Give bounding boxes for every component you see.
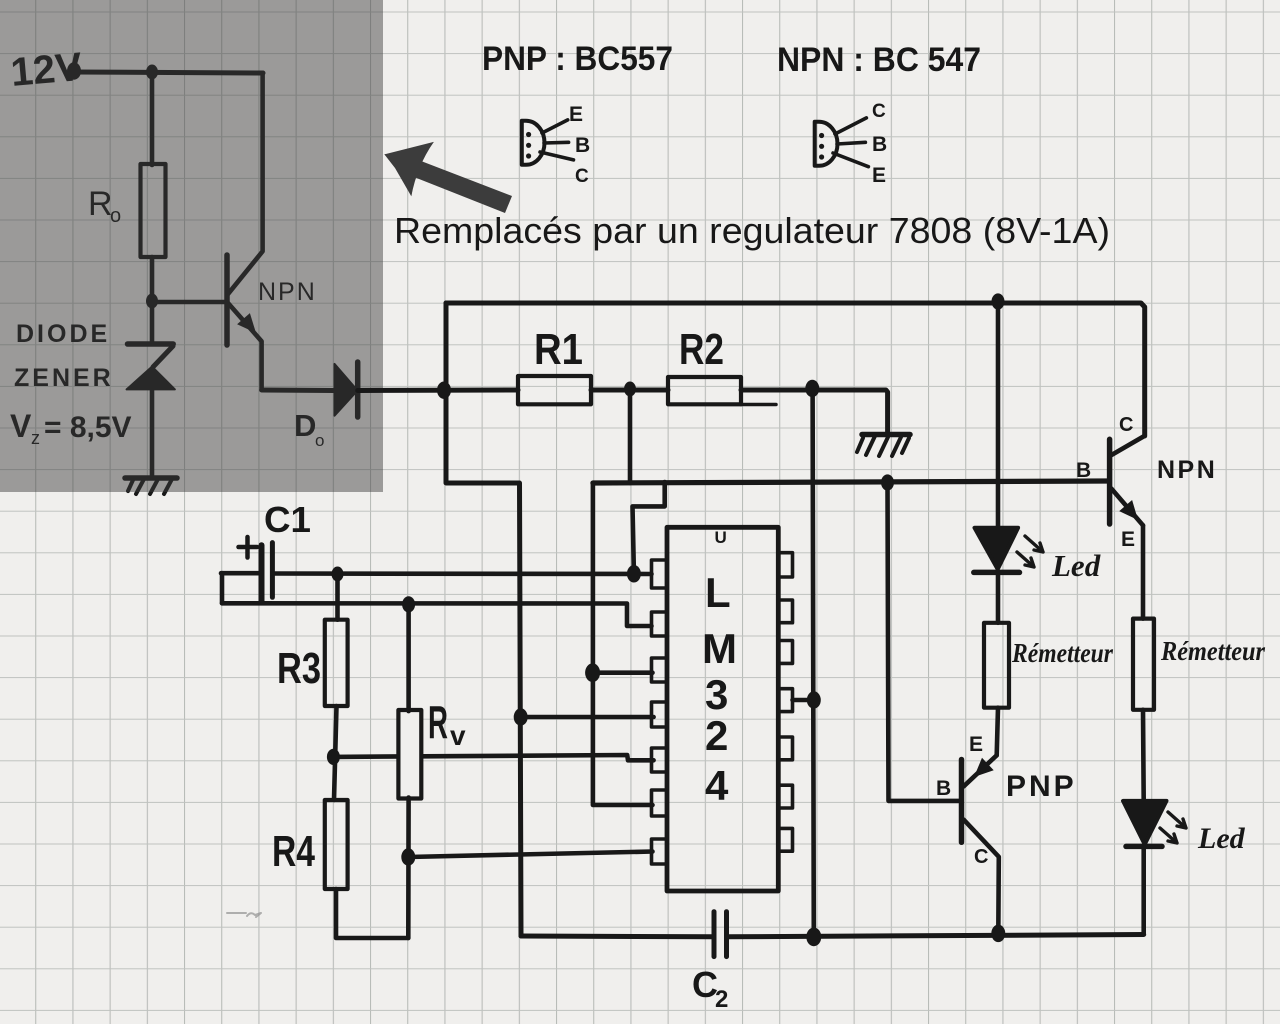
wire bus3 to pin2 bbox=[222, 603, 652, 626]
wire 12V to R0 bbox=[150, 72, 155, 165]
LM324 right pin 6 bbox=[778, 785, 792, 808]
wire Rv top lead bbox=[406, 604, 411, 711]
capacitor C1 plus sign bbox=[239, 545, 258, 550]
PNP pinout package bbox=[522, 121, 545, 165]
wire LED1 anode from top bus bbox=[996, 302, 1001, 529]
junction Q2 collector / bottom bus bbox=[991, 925, 1005, 943]
junction pin1 rail / staircase bbox=[627, 565, 641, 583]
PNP pinout leads bbox=[542, 120, 568, 133]
svg-text:C: C bbox=[974, 846, 988, 868]
junction R3/R4 divider node bbox=[327, 749, 340, 765]
svg-text:C: C bbox=[575, 166, 589, 187]
svg-text:v: v bbox=[450, 720, 466, 751]
LM324 left pin 4 bbox=[652, 702, 668, 727]
op-amp IC U1 LM324 body bbox=[667, 527, 778, 891]
wire into C1 bbox=[221, 571, 262, 576]
wire R4 bottom to Rv bottom bbox=[336, 889, 408, 938]
transistor Q3 NPN bar bbox=[1107, 439, 1113, 524]
wire zener top bbox=[150, 301, 155, 344]
LED D2 bbox=[1123, 801, 1167, 845]
wire Rv bottom lead bbox=[406, 798, 411, 939]
svg-text:R2: R2 bbox=[679, 325, 724, 374]
resistor R3 bbox=[325, 620, 348, 706]
junction top bus / LED1 chain bbox=[992, 293, 1005, 309]
LM324 right pin 3 bbox=[778, 641, 792, 664]
ground (zener) bbox=[125, 475, 177, 481]
wire base Q1 bbox=[152, 300, 226, 305]
resistor R6 (Remetteur) bbox=[1133, 619, 1154, 710]
junction bottom bus / LM324 right vertical bbox=[806, 928, 821, 947]
wire R3 to R4 bbox=[334, 706, 337, 800]
junction pin3 tap bbox=[585, 663, 600, 682]
diode D0 bbox=[335, 364, 358, 416]
svg-text:2: 2 bbox=[705, 712, 728, 759]
svg-text:U: U bbox=[715, 528, 727, 547]
svg-text:E: E bbox=[1121, 528, 1135, 551]
wire R3 top lead bbox=[335, 574, 340, 620]
wire LED2 to bottom bus bbox=[1141, 846, 1146, 934]
svg-text:C: C bbox=[872, 101, 886, 122]
transistor Q2 PNP bar bbox=[959, 760, 965, 843]
wire Q3 emitter to R6 bbox=[1141, 525, 1146, 618]
LM324 right pin 7 bbox=[778, 828, 792, 851]
wire LM324 right vertical (R2 node to bottom bus) bbox=[813, 389, 814, 937]
resistor R0 bbox=[141, 164, 166, 257]
wire R2 to ground stem bbox=[741, 390, 888, 433]
wire R6 to LED2 bbox=[1141, 710, 1146, 801]
LED D1 emission arrows bbox=[1017, 536, 1043, 567]
wire LED1 to R5 bbox=[996, 572, 1001, 622]
svg-text:R3: R3 bbox=[277, 644, 321, 693]
transistor Q1 collector bbox=[228, 73, 263, 294]
resistor R5 (Remetteur) bbox=[984, 623, 1009, 708]
junction D0 wire / left vertical bbox=[437, 381, 451, 399]
junction R3 top bbox=[332, 567, 344, 582]
wire R1 to R2 bbox=[591, 388, 668, 393]
svg-text:R: R bbox=[428, 696, 448, 748]
annotation arrow bbox=[384, 142, 512, 213]
svg-text:C1: C1 bbox=[264, 499, 311, 540]
gray overlay rectangle bbox=[0, 0, 383, 492]
svg-text:PNP : BC557: PNP : BC557 bbox=[482, 40, 673, 78]
wire R5 to PNP emitter bbox=[997, 708, 998, 756]
wire top bus V+ bbox=[446, 303, 1145, 436]
wire bus2 (base rail) bbox=[593, 481, 1109, 483]
transistor Q1 NPN bar bbox=[224, 255, 230, 345]
transistor Q2 PNP emitter with arrow bbox=[964, 755, 997, 786]
svg-text:Rémetteur: Rémetteur bbox=[1011, 638, 1113, 668]
wire bus2 left end down to pin6 bbox=[593, 483, 653, 805]
wire zener to ground bbox=[150, 389, 155, 477]
junction Rv top bbox=[402, 596, 415, 612]
resistor R1 bbox=[518, 376, 591, 404]
wire left vertical from top bus down and jog bbox=[446, 303, 521, 936]
junction pin4 tap on left vertical bbox=[514, 708, 528, 726]
resistor R4 bbox=[325, 800, 348, 889]
wire right pin4 to vertical bbox=[793, 698, 814, 703]
svg-text:C: C bbox=[1119, 414, 1133, 436]
svg-text:E: E bbox=[969, 733, 983, 756]
svg-text:Led: Led bbox=[1197, 822, 1246, 855]
LM324 left pin 6 bbox=[652, 790, 668, 816]
wire C1 to pin1 (bus y=574) bbox=[272, 571, 651, 576]
capacitor C2 bbox=[712, 912, 717, 957]
R2 bottom stray stroke bbox=[741, 403, 776, 407]
svg-text:PNP: PNP bbox=[1006, 770, 1077, 803]
wire C1 left corner down bbox=[220, 573, 225, 603]
svg-text:Led: Led bbox=[1051, 548, 1101, 583]
node A junction dot (R0/zener/base) bbox=[146, 294, 158, 309]
svg-text:M: M bbox=[702, 625, 737, 672]
svg-text:2: 2 bbox=[715, 986, 728, 1013]
wire Q2 base bbox=[889, 799, 962, 804]
transistor Q2 collector bbox=[964, 820, 999, 934]
LM324 left pin 5 bbox=[652, 748, 668, 772]
junction R2 wire / LM324 right vertical bbox=[805, 380, 819, 398]
ground (main) bbox=[862, 432, 910, 438]
svg-text:R1: R1 bbox=[534, 325, 583, 374]
wire Q1 emitter to D0 bbox=[262, 388, 334, 394]
wire pin3 tap to pin 3 bbox=[593, 670, 653, 675]
svg-text:NPN: NPN bbox=[1157, 456, 1217, 484]
svg-text:L: L bbox=[705, 569, 731, 616]
wire R1-R2 node down to bus2 bbox=[628, 389, 633, 483]
svg-text:E: E bbox=[569, 103, 583, 126]
capacitor C1 bbox=[259, 545, 265, 600]
svg-text:B: B bbox=[575, 134, 590, 157]
wire pin7 bbox=[408, 852, 652, 858]
svg-text:4: 4 bbox=[705, 762, 729, 809]
junction bus2 / PNP base feed bbox=[881, 474, 894, 490]
junction R1-R2 node bbox=[624, 382, 636, 397]
NPN pinout leads bbox=[835, 118, 866, 134]
svg-text:NPN : BC 547: NPN : BC 547 bbox=[777, 41, 981, 79]
junction 12V/R0 bbox=[146, 65, 158, 80]
wire R0 to node A bbox=[150, 257, 155, 301]
transistor Q1 emitter with arrow bbox=[228, 303, 262, 389]
NPN pinout package bbox=[815, 122, 838, 166]
LM324 left pin 3 bbox=[652, 658, 668, 682]
LM324 left pin 1 bbox=[652, 560, 668, 588]
transistor Q3 collector bbox=[1111, 436, 1144, 455]
svg-text:B: B bbox=[936, 777, 951, 800]
svg-text:E: E bbox=[872, 164, 886, 187]
wire 12V rail top bbox=[74, 72, 263, 73]
wire bottom bus right segment bbox=[727, 935, 1144, 937]
LED D1 bbox=[975, 528, 1019, 570]
potentiometer Rv bbox=[398, 710, 421, 799]
svg-text:Rémetteur: Rémetteur bbox=[1160, 636, 1265, 666]
resistor R2 bbox=[668, 377, 741, 404]
LM324 right pin 5 bbox=[778, 737, 792, 760]
junction right pin4 bbox=[807, 691, 821, 709]
LM324 left pin 7 bbox=[652, 839, 668, 864]
wire pin4 left tap bbox=[521, 715, 654, 720]
faint pencil smudge bbox=[227, 913, 261, 917]
wire bus2 to Q2 base vertical bbox=[888, 483, 889, 801]
svg-text:3: 3 bbox=[705, 671, 728, 718]
svg-text:R4: R4 bbox=[272, 827, 315, 876]
wire bottom bus left segment bbox=[521, 934, 714, 940]
svg-text:B: B bbox=[872, 133, 887, 156]
LM324 right pin 1 bbox=[778, 553, 792, 577]
LM324 left pin 2 bbox=[652, 612, 668, 636]
svg-text:B: B bbox=[1076, 459, 1091, 482]
wire bus2 staircase to pin1 rail bbox=[633, 482, 665, 573]
junction Rv bottom / pin7 wire bbox=[401, 848, 415, 866]
LM324 right pin 2 bbox=[778, 600, 792, 623]
12V terminal dot bbox=[67, 62, 81, 80]
LM324 right pin 4 bbox=[778, 689, 792, 712]
wire D0 to R1 bbox=[358, 388, 518, 394]
LED D2 emission arrows bbox=[1160, 812, 1186, 843]
transistor Q3 emitter with arrow bbox=[1111, 489, 1143, 526]
svg-text:Remplacés par un regulateur 78: Remplacés par un regulateur 7808 (8V-1A) bbox=[394, 210, 1110, 251]
wire divider node to pin5 (through Rv) bbox=[333, 755, 653, 760]
diode zener DZ bbox=[128, 341, 174, 347]
